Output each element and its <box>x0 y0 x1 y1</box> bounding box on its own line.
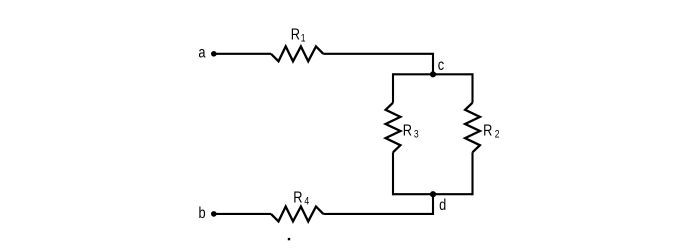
node b (terminal dot) <box>211 211 217 217</box>
resistor R3 <box>386 103 401 153</box>
svg-text:d: d <box>439 197 446 215</box>
node a (terminal dot) <box>211 51 217 57</box>
cropped caption mark <box>288 238 290 240</box>
svg-text:b: b <box>199 205 206 223</box>
wire left branch upper <box>392 73 394 102</box>
wire a to R1 <box>214 53 271 55</box>
wire R1 to node c <box>323 54 433 75</box>
resistor R4 <box>271 207 323 222</box>
node c <box>430 71 436 77</box>
wire right branch upper <box>471 73 473 102</box>
resistor R1 <box>271 46 323 61</box>
wire right branch lower <box>471 152 473 195</box>
resistor R2 <box>465 103 480 153</box>
wire b to R4 <box>214 213 271 215</box>
svg-text:R2: R2 <box>483 122 499 141</box>
svg-text:R3: R3 <box>403 122 419 141</box>
wire R4 to node d <box>323 194 433 214</box>
wire box top <box>393 73 473 75</box>
wire left branch lower <box>392 152 394 195</box>
svg-text:R4: R4 <box>293 189 310 208</box>
svg-text:R1: R1 <box>291 26 306 45</box>
svg-text:c: c <box>438 57 444 75</box>
node d <box>430 191 436 197</box>
svg-text:a: a <box>198 44 206 62</box>
wire box bottom <box>393 193 473 195</box>
